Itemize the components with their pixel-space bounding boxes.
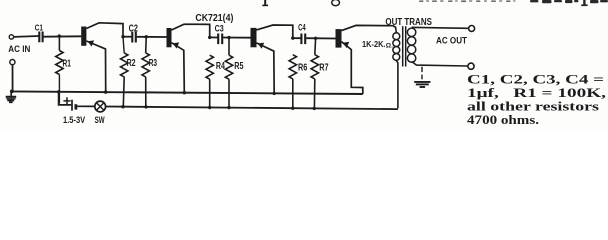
junction R7 lower rail [313,107,316,110]
resistor R3 [145,37,148,53]
svg-text:AC IN: AC IN [8,44,30,54]
resistor R2 [123,37,124,53]
svg-text:AC OUT: AC OUT [436,35,467,46]
wire node B to C2 [123,36,132,38]
svg-text:SW: SW [95,115,106,126]
wire ground rail [11,91,363,94]
transformer T1 primary [393,33,400,40]
wire C4 to Q4 base [306,37,335,39]
junction R5 lower rail [227,106,230,109]
Q2 collector [172,24,210,37]
node F junction R6 [291,36,294,39]
Q3 collector [257,25,293,38]
junction R1 rail [57,90,60,93]
resistor R7 [314,38,317,54]
wire AC IN to C1 [14,35,40,38]
Q3 emitter [257,43,275,93]
capacitor C4 [300,34,302,45]
transistor Q2 base bar [167,28,172,47]
wire C3 to Q3 base [223,37,251,39]
capacitor C1 [38,32,40,43]
svg-text:all other resistors: all other resistors [467,100,599,114]
battery B1 plus plate [71,100,73,111]
Q2 emitter [172,43,185,93]
Q4 emitter [342,42,363,94]
resistor R6 [289,55,296,79]
wire C2 to Q2 base [137,36,167,38]
svg-text:1μf, R1 = 100K,: 1μf, R1 = 100K, [467,86,606,100]
terminal AC OUT top [469,26,475,32]
junction R6 lower rail [291,107,294,110]
svg-text:C4: C4 [298,23,306,33]
svg-text:CK721(4): CK721(4) [195,13,233,24]
transformer T1 core [402,26,404,66]
earth ground (dashed) on secondary [421,67,423,72]
switch SW [95,101,106,112]
wire node F to C4 [293,37,302,39]
svg-text:R2: R2 [127,58,136,69]
svg-text:R7: R7 [319,63,329,74]
node E junction R5 [227,36,230,39]
svg-text:1K-2K.: 1K-2K. [362,40,386,49]
node A junction R1 [58,34,61,37]
svg-text:R3: R3 [149,58,158,69]
svg-text:4700 ohms.: 4700 ohms. [467,113,539,127]
cropped caption text at top edge [262,0,608,6]
battery B1 minus plate [75,104,78,109]
junction R4 lower rail [208,106,211,109]
transistor Q4 base bar [336,29,342,48]
ground [10,92,12,96]
svg-text:R1: R1 [63,58,72,69]
label + polarity [63,100,70,102]
svg-text:C1, C2, C3, C4 =: C1, C2, C3, C4 = [467,73,604,87]
junction R2 lower rail [121,105,124,108]
node G junction R7 [314,37,317,40]
node D junction R4 [208,36,211,39]
wire AC IN bottom to ground rail [12,65,14,92]
junction R3 lower rail [144,105,147,108]
svg-text:OUT TRANS: OUT TRANS [385,17,432,28]
terminal AC IN hot [9,35,13,39]
junction Q3 emitter rail [273,92,276,95]
Q1 collector [86,23,123,37]
junction Q1 emitter rail [104,90,107,93]
svg-text:R4: R4 [216,61,225,72]
wire lower supply rail [106,107,398,110]
svg-text:R6: R6 [298,63,308,74]
transistor Q1 base bar [81,27,86,46]
transistor Q3 base bar [251,28,257,47]
capacitor C2 [131,32,133,43]
svg-text:R5: R5 [234,61,243,72]
terminal AC OUT bottom [468,63,474,69]
resistor R4 [206,55,213,79]
wire C1 to Q1 base [44,35,82,37]
svg-text:Ω.: Ω. [386,42,393,49]
capacitor C3 [217,34,219,45]
svg-text:C3: C3 [215,24,224,35]
resistor R5 [228,38,230,56]
node C junction R3 [145,35,148,38]
resistor R1 [58,36,60,50]
transformer T1 secondary [407,28,415,36]
Q1 emitter [86,41,105,92]
svg-text:1.5-3V: 1.5-3V [63,115,86,126]
Q4 collector [342,25,393,30]
wire rail to battery [59,92,72,105]
wire node D to C3 [210,36,219,38]
node B junction R2 [121,35,124,38]
junction Q2 emitter rail [183,91,186,94]
svg-text:C1: C1 [35,23,43,33]
wire battery to switch [77,105,95,107]
terminal AC IN ground side [10,60,15,65]
